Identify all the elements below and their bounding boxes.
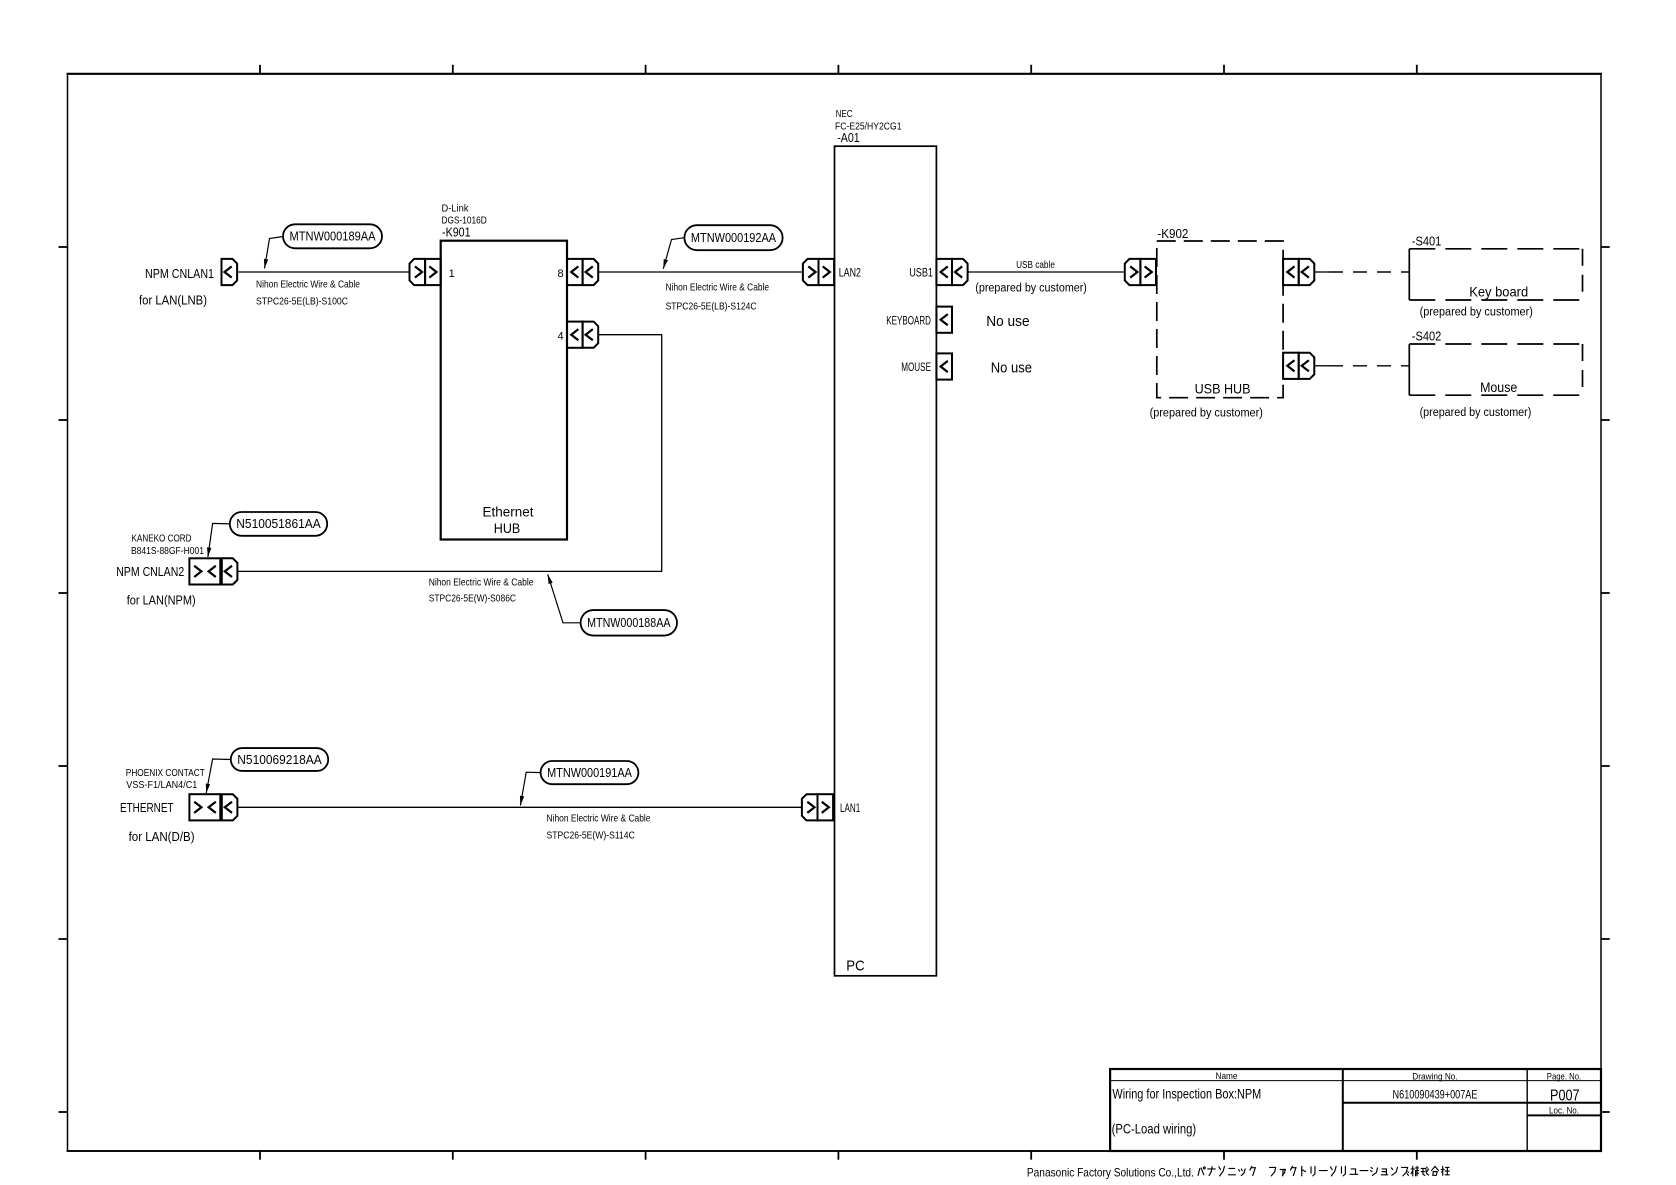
svg-text:STPC26-5E(LB)-S100C: STPC26-5E(LB)-S100C [256, 296, 348, 308]
svg-text:MTNW000189AA: MTNW000189AA [290, 230, 377, 244]
svg-text:Wiring for Inspection Box:NPM: Wiring for Inspection Box:NPM [1112, 1086, 1261, 1101]
svg-text:Nihon Electric Wire & Cable: Nihon Electric Wire & Cable [429, 576, 534, 588]
svg-text:N510069218AA: N510069218AA [237, 753, 322, 767]
svg-text:Name: Name [1216, 1071, 1238, 1081]
svg-text:(prepared by customer): (prepared by customer) [975, 283, 1087, 295]
svg-text:Nihon Electric Wire & Cable: Nihon Electric Wire & Cable [547, 813, 651, 825]
svg-text:Panasonic Factory Solutions Co: Panasonic Factory Solutions Co.,Ltd. [1027, 1165, 1194, 1179]
svg-text:STPC26-5E(W)-S114C: STPC26-5E(W)-S114C [547, 830, 636, 842]
svg-text:(prepared by customer): (prepared by customer) [1150, 408, 1263, 420]
svg-text:-A01: -A01 [837, 131, 860, 145]
svg-text:STPC26-5E(LB)-S124C: STPC26-5E(LB)-S124C [666, 301, 757, 313]
svg-text:PC: PC [846, 959, 864, 975]
svg-text:for LAN(D/B): for LAN(D/B) [129, 829, 195, 844]
svg-text:-S401: -S401 [1412, 235, 1442, 249]
svg-text:No use: No use [986, 313, 1029, 330]
svg-text:(PC-Load wiring): (PC-Load wiring) [1112, 1122, 1197, 1137]
svg-text:USB HUB: USB HUB [1195, 380, 1251, 396]
svg-text:(prepared by customer): (prepared by customer) [1420, 307, 1533, 319]
svg-text:for LAN(LNB): for LAN(LNB) [139, 293, 207, 308]
svg-text:LAN1: LAN1 [840, 801, 861, 815]
svg-text:Ethernet: Ethernet [483, 504, 534, 519]
svg-text:MTNW000188AA: MTNW000188AA [587, 616, 671, 630]
svg-text:-S402: -S402 [1412, 329, 1442, 343]
svg-text:B841S-88GF-H001: B841S-88GF-H001 [131, 545, 204, 557]
svg-text:STPC26-5E(W)-S086C: STPC26-5E(W)-S086C [429, 593, 517, 605]
svg-text:No use: No use [991, 359, 1032, 376]
svg-text:(prepared by customer): (prepared by customer) [1420, 407, 1532, 419]
svg-text:P007: P007 [1550, 1088, 1580, 1105]
svg-text:MTNW000192AA: MTNW000192AA [691, 231, 777, 245]
svg-text:PHOENIX CONTACT: PHOENIX CONTACT [126, 767, 205, 779]
svg-text:N610090439+007AE: N610090439+007AE [1393, 1089, 1478, 1101]
svg-text:KEYBOARD: KEYBOARD [886, 315, 931, 327]
svg-text:KANEKO CORD: KANEKO CORD [132, 533, 192, 545]
svg-text:D-Link: D-Link [442, 204, 470, 215]
svg-text:Nihon Electric Wire & Cable: Nihon Electric Wire & Cable [666, 282, 770, 294]
svg-text:Page. No.: Page. No. [1547, 1071, 1581, 1081]
svg-text:Drawing No.: Drawing No. [1412, 1071, 1457, 1081]
svg-text:NEC: NEC [836, 109, 853, 120]
svg-text:-K901: -K901 [442, 226, 471, 240]
svg-text:N510051861AA: N510051861AA [236, 517, 321, 531]
svg-text:ETHERNET: ETHERNET [120, 800, 174, 815]
svg-text:for LAN(NPM): for LAN(NPM) [127, 592, 196, 607]
svg-text:HUB: HUB [494, 521, 520, 536]
svg-text:USB1: USB1 [909, 266, 933, 280]
svg-text:Mouse: Mouse [1480, 379, 1517, 395]
svg-text:USB cable: USB cable [1016, 260, 1055, 271]
svg-text:Loc. No.: Loc. No. [1549, 1106, 1579, 1116]
svg-text:NPM CNLAN1: NPM CNLAN1 [145, 266, 214, 281]
svg-text:VSS-F1/LAN4/C1: VSS-F1/LAN4/C1 [126, 779, 197, 791]
svg-text:MOUSE: MOUSE [901, 362, 931, 374]
svg-text:Nihon Electric Wire & Cable: Nihon Electric Wire & Cable [256, 279, 360, 291]
svg-text:1: 1 [449, 268, 455, 280]
svg-text:MTNW000191AA: MTNW000191AA [547, 766, 632, 780]
svg-text:8: 8 [557, 268, 563, 280]
svg-text:NPM CNLAN2: NPM CNLAN2 [116, 564, 184, 579]
svg-text:LAN2: LAN2 [839, 266, 862, 280]
svg-text:4: 4 [557, 331, 563, 343]
svg-text:-K902: -K902 [1157, 227, 1188, 241]
svg-text:Key board: Key board [1469, 284, 1528, 300]
